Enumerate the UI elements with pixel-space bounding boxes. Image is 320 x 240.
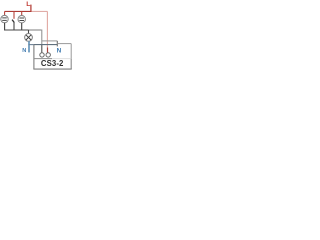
wire branch right from T1 vertical xyxy=(42,40,58,42)
wire blue branch to box left xyxy=(29,44,34,46)
wire L drop to bus xyxy=(30,5,32,12)
switch box top edge left xyxy=(33,58,52,60)
wire branch to T1 vertical xyxy=(34,44,57,46)
svg-text:N: N xyxy=(22,48,26,54)
wire drop to lamp E2 xyxy=(21,11,23,16)
svg-text:N: N xyxy=(57,47,62,54)
terminal T1 xyxy=(40,53,44,57)
wire switch to rail xyxy=(13,22,15,30)
svg-text:L: L xyxy=(26,1,30,8)
wire neutral rail xyxy=(4,29,28,31)
svg-text:CS3-2: CS3-2 xyxy=(41,59,64,68)
wire drop to lamp E1 xyxy=(4,11,6,15)
wire step down xyxy=(56,41,58,47)
wire step right to box edge xyxy=(57,43,71,45)
switch box top edge right (faint) xyxy=(52,58,71,60)
wire T1 vertical lower dark xyxy=(41,45,43,53)
wire rail corner down to T1 xyxy=(41,30,43,45)
wire drop to switch contact xyxy=(13,11,15,19)
wire down box right edge upper xyxy=(70,44,72,59)
wire neutral blue drop from X1 xyxy=(28,41,30,52)
wire lamp E1 to rail xyxy=(4,23,6,31)
wire phase bus left xyxy=(5,10,32,12)
wire phase bus right (faint) xyxy=(32,10,48,12)
terminal T2 xyxy=(46,53,50,57)
switch box right edge xyxy=(70,59,72,70)
lamp E2 xyxy=(18,16,25,23)
wire neutral rail right part xyxy=(29,29,42,31)
wire phase drop to terminal T2 (faint) xyxy=(46,11,48,47)
wire rail drop to junction lamp X1 xyxy=(28,30,30,34)
lamp X1 (circle with cross) xyxy=(25,34,33,42)
wire phase drop to terminal T2 (dark end) xyxy=(47,48,49,53)
wire down into box top-left xyxy=(33,45,35,59)
switch box bottom edge xyxy=(33,68,71,70)
lamp E1 xyxy=(1,15,8,22)
switch S1 blade xyxy=(12,20,14,23)
switch box CS3-2 left edge xyxy=(33,59,35,70)
wire lamp E2 to rail xyxy=(21,23,23,31)
